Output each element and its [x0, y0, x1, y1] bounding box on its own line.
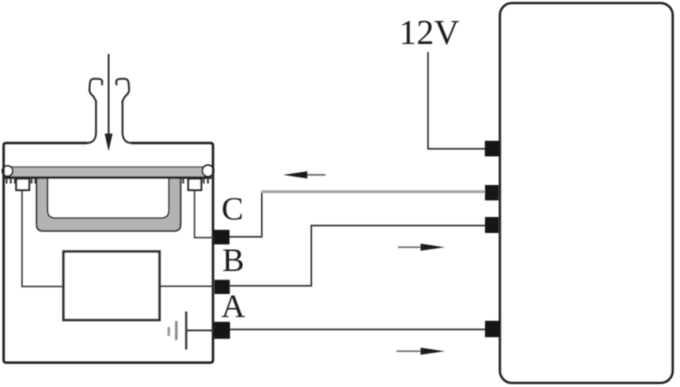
arrow: signal toward ECU (lower right) — [397, 348, 445, 355]
wire: gray signal wire to ECU pin 2 — [262, 190, 487, 193]
ground — [169, 312, 215, 350]
ECU pin 3 — [485, 217, 499, 233]
terminal C — [214, 230, 230, 245]
arrow: signal toward sensor (left) — [283, 171, 325, 178]
sensor mounting bar — [4, 167, 212, 178]
bar hatch teeth left — [6, 179, 37, 184]
intake tube right wall — [123, 101, 132, 143]
measuring channel (gray U duct) — [37, 170, 181, 231]
air flow sensor housing — [4, 143, 213, 363]
ECU box — [500, 3, 673, 383]
wire: sensor module to terminal B — [160, 285, 216, 287]
intake tube left lip — [89, 79, 102, 102]
sensor element bracket left — [16, 179, 29, 190]
ECU pin 4 — [485, 321, 499, 337]
terminal A — [214, 322, 230, 339]
sensor element bracket right — [188, 179, 201, 190]
ECU pin 1 — [485, 141, 499, 157]
intake tube right lip — [116, 79, 129, 102]
wire: 12V supply to ECU pin 1 — [428, 52, 486, 149]
ECU pin 2 — [485, 185, 499, 200]
bar hatch teeth right — [182, 179, 209, 184]
screw right — [202, 165, 213, 176]
wire: terminal C to junction — [230, 192, 262, 237]
terminal B — [215, 280, 230, 294]
svg-text:C: C — [222, 192, 244, 228]
sensor module — [64, 252, 160, 321]
wire: terminal A to ECU pin 4 — [230, 328, 486, 330]
arrow: signal toward ECU (upper right) — [398, 244, 445, 251]
svg-text:12V: 12V — [399, 13, 459, 52]
svg-text:A: A — [221, 289, 245, 325]
wire: right bracket to terminal C — [195, 190, 215, 238]
screw left — [2, 166, 12, 176]
air flow arrow — [105, 54, 113, 151]
svg-text:B: B — [222, 243, 244, 279]
wire: terminal B to ECU pin 3 — [230, 226, 486, 286]
intake tube left wall — [87, 101, 96, 143]
wire: left bracket to sensor module — [22, 190, 64, 287]
